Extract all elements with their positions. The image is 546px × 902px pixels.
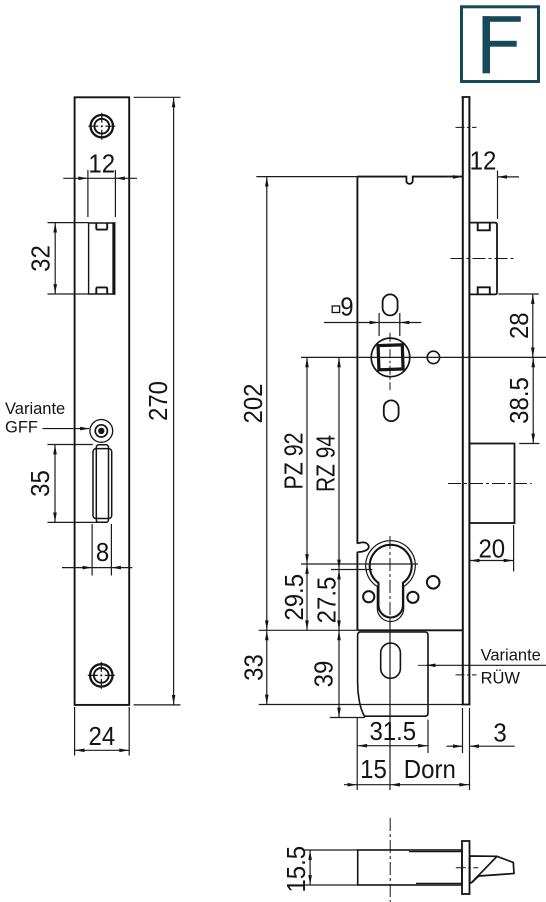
svg-text:29.5: 29.5 [282,574,310,621]
svg-text:Variante: Variante [5,400,65,418]
bottom view vertical centerline [389,818,391,902]
spindle horizontal reference line [301,356,546,358]
dimension 202 [240,177,357,631]
lower box (RUW housing) [358,632,428,716]
PZ 92 reference line [301,563,418,565]
latch cutout (front) [88,222,115,294]
svg-text:27.5: 27.5 [314,577,342,624]
euro cylinder inner outline [370,545,412,618]
svg-text:Dorn: Dorn [404,756,456,784]
case (bottom view) [358,850,462,885]
dimension 35 [28,445,98,523]
svg-text:RÜW: RÜW [481,669,521,687]
svg-text:38.5: 38.5 [506,377,534,424]
svg-text:PZ 92: PZ 92 [281,433,309,490]
dimension PZ 92 / 29.5 [281,357,309,630]
svg-text:15.5: 15.5 [283,846,311,893]
svg-text:20: 20 [478,536,505,564]
latch centerline [451,258,514,260]
dimension 15 / Dorn [344,756,469,786]
GFF variant hole [90,420,113,443]
bottom view horizontal centerline [456,867,479,869]
small circle right of cylinder [407,592,418,603]
spindle nut circle [371,338,410,377]
euro cylinder outer outline [366,541,416,622]
square spindle hole 9mm [378,345,403,370]
small circle upper right of cylinder [427,576,440,589]
notch on case top edge [406,176,412,184]
latch bolt end (bottom view) [470,856,514,883]
dimension 31.5 [357,718,428,753]
svg-text:202: 202 [240,383,268,423]
RZ 94 reference line [331,569,372,571]
label Variante GFF [5,400,90,437]
svg-text:3: 3 [493,720,506,748]
stulp (forend) [462,97,471,705]
dimension 38.5 [506,357,539,443]
latch bolt (side view) [470,223,498,295]
svg-text:12: 12 [88,151,115,179]
faceplate outline [75,97,130,705]
svg-text:24: 24 [89,724,116,752]
label Variante RUW with leader [418,646,546,687]
logo F [462,7,539,82]
svg-text:39: 39 [311,661,339,688]
stulp end (bottom view) [462,841,470,894]
svg-text:31.5: 31.5 [369,718,416,746]
cylinder vertical centerline [389,536,391,790]
dimension 24 [75,707,130,756]
svg-text:270: 270 [146,381,174,421]
stulp bottom extension line [259,704,462,706]
spindle follower: top oval [383,294,398,315]
svg-text:28: 28 [506,312,534,339]
dimension 3 [447,708,515,790]
spindle follower: bottom oval [384,400,399,421]
dimension 15.5 [283,846,358,893]
dimension 12 (left view) [63,151,137,217]
dimension 32 [28,223,89,294]
svg-text:12: 12 [470,148,497,176]
svg-text:35: 35 [28,470,56,497]
svg-text:8: 8 [96,540,109,568]
bottom screw hole [88,662,115,689]
lock case outline [357,177,462,631]
dimension RZ 94 / 27.5 [313,357,342,630]
stulp screw position marks [456,127,477,675]
lower slot with auxiliary bolt [93,445,112,523]
svg-text:Variante: Variante [481,646,541,664]
svg-text:GFF: GFF [5,418,38,436]
nut vertical centerline [389,333,391,390]
small circle left of cylinder [363,591,374,602]
svg-text:9: 9 [340,294,353,322]
svg-text:33: 33 [241,654,269,681]
spring hook on case left edge [357,542,368,552]
top screw hole [88,113,115,140]
RUW oval hole [381,643,401,678]
dimension 33 [241,630,269,704]
svg-text:RZ 94: RZ 94 [313,435,341,492]
case bottom extension line [259,629,357,631]
dimension 12 (right view) [446,148,519,219]
left extension line below box [356,718,358,790]
dimension 270 [134,97,181,705]
deadbolt (side view) [470,444,515,524]
dimension square 9 [324,294,421,336]
svg-text:32: 32 [28,245,56,272]
dimension 39 [311,630,365,717]
deadbolt centerline [448,483,532,485]
small circle right of nut [427,351,439,363]
dimension 28 [498,294,538,357]
dimension 20 [470,525,514,571]
svg-text:15: 15 [360,756,387,784]
dimension 8 [62,524,132,576]
